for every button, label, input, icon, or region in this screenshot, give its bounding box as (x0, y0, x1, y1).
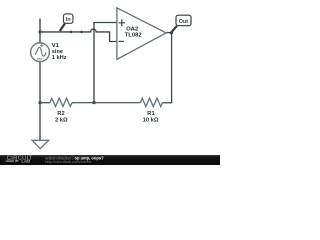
svg-text:In: In (66, 17, 71, 23)
svg-text:R2: R2 (57, 111, 64, 117)
svg-text:LAB: LAB (21, 158, 30, 163)
svg-text:R1: R1 (147, 111, 155, 117)
svg-text:2 kΩ: 2 kΩ (55, 118, 68, 124)
svg-text:OA2: OA2 (126, 27, 139, 33)
svg-text:http://circuitlab.com/c/e4w: http://circuitlab.com/c/e4w (45, 159, 91, 164)
svg-text:10 kΩ: 10 kΩ (143, 118, 159, 124)
svg-text:Out: Out (179, 19, 188, 25)
svg-text:TL082: TL082 (125, 33, 143, 39)
svg-text:1 kHz: 1 kHz (52, 55, 67, 61)
